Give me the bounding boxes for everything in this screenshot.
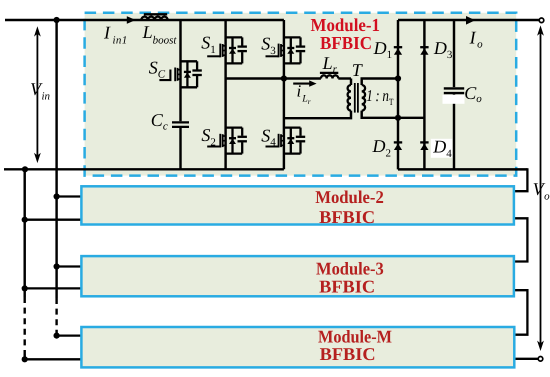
transistor S_C (clamp switch with body diode and capacitor) xyxy=(175,61,202,87)
wire rectifier column 1 (D1/D2) xyxy=(397,20,399,169)
transistor S3 gate lead xyxy=(266,55,279,57)
transistor Q S2 xyxy=(220,128,247,154)
diode D2 xyxy=(394,142,402,150)
voltage arrow V_in xyxy=(34,26,41,163)
wire moduleM input + stub xyxy=(57,334,83,336)
module-1 enclosure dashed border xyxy=(85,13,517,176)
module-M box xyxy=(81,327,514,367)
transistor S4 gate lead xyxy=(266,146,279,148)
wire module1 out- to module2 + xyxy=(513,168,528,191)
junction dot moduleM - on bus A xyxy=(22,356,28,362)
transistor Q S4 xyxy=(279,128,306,154)
transistor S_C gate lead xyxy=(159,70,170,81)
wire input negative mid rail (Vin-) xyxy=(4,168,284,170)
junction dot module2 + on bus B xyxy=(54,193,60,199)
transformer T primary winding xyxy=(348,85,351,111)
wire transformer primary bottom to leg 2 xyxy=(284,111,351,119)
wire secondary top output rail xyxy=(398,19,539,21)
wire output capacitor column lower xyxy=(453,94,455,169)
output terminal + (circle) xyxy=(539,18,544,23)
current arrow I_in1 on top rail xyxy=(127,16,136,24)
wire transformer secondary bottom lead to rectifier column 2 xyxy=(362,111,425,118)
svg-text:BFBIC: BFBIC xyxy=(320,344,376,364)
wire bridge mid to L_r (node A) xyxy=(226,77,321,79)
wire top input rail (Vin+) xyxy=(5,19,284,21)
output terminal - (circle) xyxy=(538,357,543,362)
diode D3 xyxy=(420,47,428,55)
junction dot bridge mid at leg 2 xyxy=(281,75,287,81)
inductor L_boost core bar xyxy=(144,13,167,15)
diode D1 xyxy=(394,47,402,55)
junction dot moduleM + on bus B xyxy=(54,333,60,339)
transistor S1 gate lead xyxy=(207,55,220,57)
inductor L_r xyxy=(321,75,338,78)
wire module3 out- to moduleM + xyxy=(513,290,528,335)
wire bus A dashed continuation xyxy=(24,297,26,354)
transistor Q S1 xyxy=(220,37,247,63)
junction dot secondary bottom crossing column 1 xyxy=(395,115,401,121)
wire bus A (Vin- distribution, solid part) xyxy=(23,169,25,297)
capacitor C_o xyxy=(444,88,464,93)
svg-text:BFBIC: BFBIC xyxy=(319,207,375,227)
inductor L_r core bar xyxy=(320,72,338,74)
junction dot top rail / bus B xyxy=(54,17,60,23)
wire S_C / C_c column lower xyxy=(179,128,181,169)
junction dot module2 - on bus A xyxy=(22,217,28,223)
wire bridge leg 2 (S3/S4) xyxy=(283,20,285,169)
wire bus B lower solid end xyxy=(55,330,57,336)
voltage arrow V_o xyxy=(537,25,544,351)
wire module2 out- to module3 + xyxy=(513,218,528,261)
wire rectifier column 2 (D3/D4) xyxy=(423,20,425,169)
transformer T core xyxy=(355,83,358,113)
svg-text:BFBIC: BFBIC xyxy=(319,276,375,296)
wire module2 input + stub xyxy=(57,195,83,197)
current arrow i_Lr xyxy=(293,80,316,86)
wire bus A lower solid end xyxy=(23,354,25,359)
svg-text:BFBIC: BFBIC xyxy=(320,33,372,53)
capacitor C_o white label patch xyxy=(443,95,465,104)
white patch behind D_4 xyxy=(431,139,453,158)
wire module2 input - stub xyxy=(25,219,83,221)
module-1 enclosure fill xyxy=(85,13,517,176)
junction dot secondary top at column 1 xyxy=(395,75,401,81)
current arrow I_o on output rail xyxy=(466,16,475,25)
inductor L_boost xyxy=(141,17,167,21)
junction dot mid rail / bus A xyxy=(22,166,28,172)
wire transformer primary top lead xyxy=(350,79,352,86)
wire bus B (Vin+ distribution, solid part) xyxy=(55,20,57,298)
junction dot module3 - on bus A xyxy=(22,285,28,291)
module M bottom stub to terminal xyxy=(514,358,538,360)
wire S_C / C_c column upper xyxy=(179,20,181,121)
wire transformer secondary top lead to rectifier column 1 xyxy=(362,79,398,86)
transistor Q S3 xyxy=(279,37,306,63)
junction dot module3 + on bus B xyxy=(54,263,60,269)
diode D4 xyxy=(420,142,428,150)
capacitor C_c xyxy=(172,122,189,127)
transformer T secondary winding xyxy=(362,85,365,111)
wire module3 input + stub xyxy=(57,265,83,267)
wire module3 input - stub xyxy=(25,287,83,289)
wire secondary bottom rail (module 1 out-) xyxy=(398,168,527,170)
module-2 box xyxy=(81,186,514,224)
module-3 box xyxy=(81,256,514,296)
transistor S2 gate lead xyxy=(207,146,220,148)
svg-text:Module-2: Module-2 xyxy=(315,187,384,207)
wire bridge leg 1 (S1/S2) xyxy=(224,20,226,169)
wire output capacitor column upper xyxy=(453,20,455,87)
wire L_r to transformer primary top xyxy=(338,77,351,79)
wire moduleM input - stub xyxy=(25,358,83,360)
wire bus B dashed continuation xyxy=(55,298,57,330)
